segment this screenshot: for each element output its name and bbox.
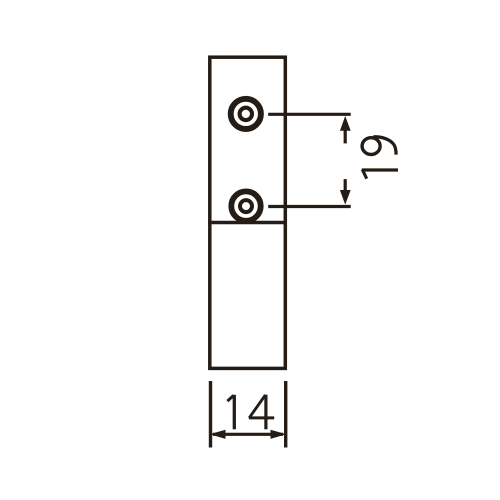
hole 2 inner ring [240,200,252,212]
dim text 14 digit 4 crossbar [249,416,274,419]
divider line [208,221,287,225]
dim 14 right arrow [271,430,287,439]
dim text 14 digit 4 stem [264,395,267,430]
hole 1 outer ring [231,99,261,129]
dim 19 upper tail [344,130,347,144]
dim text 14 digit 1 flag [227,395,233,401]
dim 14 left arrow [210,430,226,439]
extension line bottom right [284,381,287,448]
dim text 14 digit 1 stem [233,395,236,430]
hole 2 outer ring [231,191,260,220]
dim text 19 digit 9 bowl (rotated) [362,138,380,155]
dim 19 upper arrow [340,116,351,131]
leader line hole 2 [268,205,351,208]
plate outline [210,57,285,368]
dim text 19 digit 1 flag (rotated) [362,169,366,178]
dim text 19 digit 1 stem (rotated) [362,168,398,171]
dim 19 lower tail [344,179,347,191]
dim 19 lower arrow [340,190,351,205]
hole 1 inner ring [240,108,252,120]
leader line hole 1 [268,113,351,116]
extension line bottom left [209,381,212,448]
dim text 19 digit 9 tail (rotated) [374,137,397,155]
dim 14 line [213,433,283,436]
dim text 14 digit 4 diagonal [249,395,265,418]
